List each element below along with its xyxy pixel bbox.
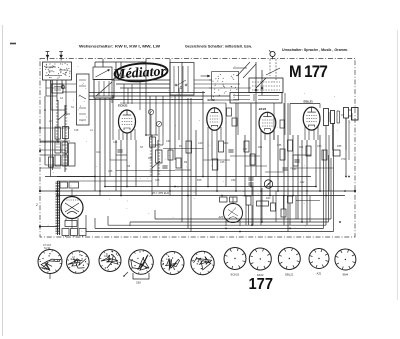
svg-text:177: 177	[249, 276, 274, 293]
svg-text:Umschalter: Sprache , Musik ,: Umschalter: Sprache , Musik , Gramm.	[282, 47, 348, 52]
coupling caps mid	[227, 108, 232, 116]
svg-text:Gezeichnete Schalter: mittels: Gezeichnete Schalter: mittelstell. bzw.	[185, 44, 252, 49]
wire mid extra h	[116, 170, 175, 172]
svg-text:R40: R40	[266, 197, 271, 200]
svg-text:C60: C60	[317, 145, 322, 148]
svg-text:C68: C68	[136, 282, 141, 285]
wire bus HT y191	[40, 190, 355, 192]
svg-text:R15: R15	[197, 179, 202, 182]
band switch box	[170, 63, 194, 96]
svg-text:M 177: M 177	[289, 63, 328, 81]
coil unit view 2	[67, 251, 90, 274]
svg-text:EBL21: EBL21	[285, 273, 294, 277]
socket EF22	[249, 248, 271, 270]
wire osc links	[145, 103, 147, 135]
capacitor C1	[52, 84, 63, 93]
svg-text:R21: R21	[258, 146, 263, 149]
svg-text:L1 L2: L1 L2	[44, 268, 51, 271]
schematic border frame	[40, 59, 355, 238]
svg-text:ECH21: ECH21	[118, 104, 128, 108]
tube ECH21 leads	[118, 129, 120, 140]
wire speaker right	[325, 126, 327, 196]
svg-text:C25: C25	[108, 170, 113, 173]
Mediator logo	[111, 62, 168, 83]
svg-text:ECH21: ECH21	[231, 273, 240, 277]
tube EF22a	[207, 108, 222, 131]
resistor R43	[246, 196, 251, 205]
wire top bus 1	[112, 79, 170, 81]
tube ECH21	[119, 110, 136, 133]
wire loop y231.5	[86, 231, 334, 233]
wire bus y186.5	[105, 186, 316, 188]
resistor R osc1	[150, 137, 156, 147]
wire loop y228.4	[95, 227, 324, 229]
left resistor stack	[55, 127, 61, 139]
scan speckle	[168, 154, 171, 157]
capacitor C85	[69, 182, 79, 188]
coil unit view 3	[99, 250, 121, 272]
svg-text:C20: C20	[104, 255, 109, 258]
output section extras	[336, 111, 338, 123]
voltage selector	[264, 180, 272, 188]
svg-text:R33: R33	[292, 168, 297, 171]
svg-text:C23: C23	[96, 151, 101, 154]
switch S phono	[255, 62, 257, 95]
resistor R osc2	[156, 150, 163, 163]
capacitors (mid band)	[117, 149, 122, 151]
tube AZ1 (rectifier)	[224, 204, 243, 223]
tube EBL21 leads	[304, 127, 306, 141]
gramophone jack Q	[270, 51, 275, 56]
svg-text:L14: L14	[196, 258, 201, 261]
tube EF22a leads	[207, 127, 209, 140]
svg-text:C45: C45	[220, 161, 225, 164]
svg-text:C35: C35	[155, 179, 160, 182]
arrow into wafer	[201, 75, 210, 77]
wire loop y219	[155, 218, 331, 220]
svg-text:C62: C62	[300, 181, 305, 184]
coil box bottom	[94, 80, 114, 99]
svg-text:L3: L3	[72, 256, 75, 259]
svg-text:EF22: EF22	[259, 107, 267, 111]
svg-text:Zf = 475 kHz: Zf = 475 kHz	[152, 191, 170, 195]
speaker	[344, 108, 349, 119]
wire power links	[251, 186, 253, 196]
svg-text:C30: C30	[166, 140, 171, 143]
wire loop y225.2	[108, 224, 326, 226]
ferrite box	[249, 78, 283, 93]
antenna coupler unit	[43, 62, 72, 80]
junction dots power	[225, 228, 227, 230]
svg-text:EBL21: EBL21	[304, 100, 314, 104]
wire top bus 3	[120, 87, 170, 89]
svg-text:L11: L11	[166, 258, 170, 261]
svg-text:C40: C40	[198, 142, 203, 145]
socket EBL21	[278, 248, 300, 270]
wire top bus 4	[89, 92, 205, 94]
dial cord diagonals	[237, 62, 250, 76]
svg-text:S1: S1	[71, 106, 75, 109]
svg-text:L4: L4	[90, 129, 93, 132]
wire bus y195.5	[57, 195, 345, 197]
svg-text:L2: L2	[49, 120, 52, 123]
resistor R41	[257, 201, 269, 206]
wire top bus 2	[116, 83, 170, 85]
wire column x95-110	[94, 98, 96, 191]
svg-text:S3: S3	[140, 146, 144, 149]
wire top-left links	[95, 61, 146, 63]
junction dots left	[44, 141, 46, 143]
resistor R1	[63, 127, 69, 139]
coil unit view 5	[161, 252, 184, 275]
svg-text:C15: C15	[74, 129, 79, 132]
socket ECH21	[224, 248, 246, 270]
tube EBL21	[303, 107, 320, 130]
svg-text:EF22: EF22	[208, 98, 216, 102]
left hlinks	[40, 127, 70, 129]
resistor R45	[281, 209, 286, 217]
svg-text:Wellenschalter: KW II, KW I,: Wellenschalter: KW II, KW I, MW, LW	[79, 44, 160, 49]
svg-text:C4: C4	[60, 97, 64, 100]
junction dots (buses)	[94, 176, 96, 178]
resistor R42	[220, 197, 228, 202]
antenna 2	[59, 52, 63, 61]
svg-text:C79: C79	[341, 158, 346, 161]
page edge right (scan)	[396, 30, 398, 300]
coil unit view 6	[191, 251, 214, 274]
wire top feeds	[94, 62, 96, 67]
wire bus left y226.5	[40, 226, 57, 228]
wire mid extra v	[328, 135, 330, 191]
left twin-lead	[50, 80, 52, 177]
wire band switch links	[40, 141, 58, 143]
coil unit view 4	[129, 250, 154, 275]
output choke (ticked coil)	[57, 181, 59, 235]
svg-text:R12: R12	[224, 142, 229, 145]
svg-text:C56: C56	[277, 144, 282, 147]
wire top drops B	[237, 103, 239, 135]
IF can (tall, stippled)	[77, 74, 90, 125]
wire mid short links	[163, 148, 203, 150]
resistors (mid band)	[186, 141, 192, 153]
oscillator coil L5/L6	[151, 135, 153, 176]
svg-text:C52: C52	[231, 179, 236, 182]
coil unit view 1	[38, 250, 62, 274]
scan mark top-left	[10, 43, 16, 45]
svg-text:AZ1: AZ1	[317, 272, 322, 276]
wire gramm dashes	[269, 59, 271, 76]
tube EM4 (tuning eye)	[61, 197, 83, 219]
svg-text:AZ1: AZ1	[219, 215, 224, 219]
resistor R2	[69, 143, 76, 166]
wire bus AVC y176.5	[57, 176, 311, 178]
tube EF22b leads	[260, 131, 262, 141]
svg-text:S1 S4: S1 S4	[44, 248, 51, 250]
svg-text:R5: R5	[127, 165, 131, 168]
wire left-of-tube	[112, 95, 114, 140]
svg-text:R31: R31	[299, 146, 304, 149]
wire logo-under mesh	[120, 75, 146, 77]
socket AZ1	[309, 249, 329, 269]
svg-text:C21: C21	[113, 141, 118, 144]
resistor R44	[271, 203, 276, 211]
IF can 2 (horizontal)	[230, 93, 282, 104]
wire vertical drops (mid band)	[115, 140, 117, 191]
svg-text:2: 2	[36, 203, 38, 207]
page edge left (scan)	[2, 25, 4, 336]
coil L1/L2 (ticked)	[57, 100, 59, 142]
coil box top	[93, 67, 112, 80]
wire power verticals	[245, 196, 247, 225]
wire top drops A	[149, 96, 151, 135]
socket EM4	[335, 249, 356, 270]
svg-text:R35: R35	[337, 145, 342, 148]
svg-text:R9: R9	[184, 161, 188, 164]
resistor R46	[288, 196, 293, 203]
svg-text:C7 C13: C7 C13	[43, 245, 52, 247]
wire loop y222	[130, 221, 329, 223]
antenna 1	[46, 52, 50, 61]
padder trimmers	[148, 109, 153, 114]
svg-text:C47: C47	[243, 148, 248, 151]
switch wafer (stippled)	[212, 72, 239, 101]
wire speaker links	[45, 190, 58, 192]
tube EF22b	[259, 112, 276, 133]
wire coupler drops	[45, 80, 47, 96]
output transformer	[324, 109, 329, 126]
svg-text:EM4: EM4	[343, 273, 349, 277]
capacitor C84	[60, 182, 68, 188]
output resistors	[65, 221, 77, 227]
